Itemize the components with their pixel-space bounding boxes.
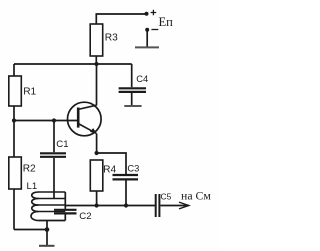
svg-text:R1: R1 (23, 87, 36, 98)
resistor R2 (9, 157, 21, 189)
resistor R3 (90, 24, 103, 56)
svg-text:C1: C1 (56, 139, 68, 150)
wire C1 top lead (53, 121, 55, 153)
node base-C1 junction (52, 118, 56, 122)
wire C4 branch (131, 64, 133, 87)
node emitter junction (95, 151, 99, 155)
capacitor C4 (119, 88, 146, 92)
capacitor C5 (156, 194, 160, 217)
node minus terminal (145, 28, 149, 32)
wire R2 bottom (13, 189, 15, 230)
wire C2 bottom lead (64, 215, 66, 221)
ground supply (135, 46, 159, 48)
wire R3 bottom (95, 56, 97, 64)
node rail-R3 junction (94, 62, 98, 66)
wire R1 top (13, 64, 15, 76)
wire emitter (96, 134, 98, 153)
capacitor C3 (113, 175, 139, 179)
inductor L1 (31, 192, 65, 221)
wire tank to ground (46, 221, 48, 246)
wire C1 bottom lead (53, 158, 55, 198)
node C3-C5 junction (124, 203, 128, 207)
ground C4 (124, 105, 141, 107)
wire R2 to ground junction (14, 229, 47, 231)
wire emitter to C3 (97, 153, 126, 174)
wire supply top (96, 14, 146, 24)
wire R1 bottom (13, 106, 15, 121)
wire C4 to ground (131, 93, 133, 105)
wire R2 top (13, 121, 15, 158)
svg-text:C2: C2 (79, 211, 91, 222)
svg-text:R4: R4 (103, 165, 116, 176)
svg-text:C5: C5 (161, 192, 172, 202)
wire R4 bottom (96, 191, 98, 206)
svg-text:R3: R3 (105, 32, 118, 43)
wire collector (96, 64, 98, 105)
svg-text:R2: R2 (23, 163, 36, 174)
transistor VT1 (68, 102, 102, 136)
wire minus to ground (146, 30, 148, 47)
svg-text:на См: на См (181, 189, 211, 203)
capacitor C2 (54, 210, 77, 214)
ground tank (39, 245, 55, 247)
node base-R1-R2 junction (12, 118, 16, 122)
svg-text:L1: L1 (27, 181, 38, 192)
svg-text:C3: C3 (127, 162, 139, 173)
wire output arrow (161, 205, 189, 207)
wire tank right side (64, 192, 66, 209)
svg-text:Еп: Еп (159, 15, 174, 29)
node tank ground junction (45, 227, 50, 232)
label minus (151, 29, 158, 31)
arrowhead to mixer (179, 202, 189, 209)
wire top rail (14, 63, 132, 65)
label + (151, 10, 157, 16)
node plus terminal (145, 12, 149, 16)
resistor R1 (9, 76, 21, 106)
svg-text:C4: C4 (136, 73, 148, 84)
capacitor C1 (40, 153, 66, 157)
wire C3 bottom (125, 181, 127, 206)
node R4-output junction (95, 203, 99, 207)
wire output rail (65, 205, 155, 207)
wire tank bottom (39, 220, 66, 222)
wire base (14, 120, 78, 122)
resistor R4 (90, 160, 103, 191)
